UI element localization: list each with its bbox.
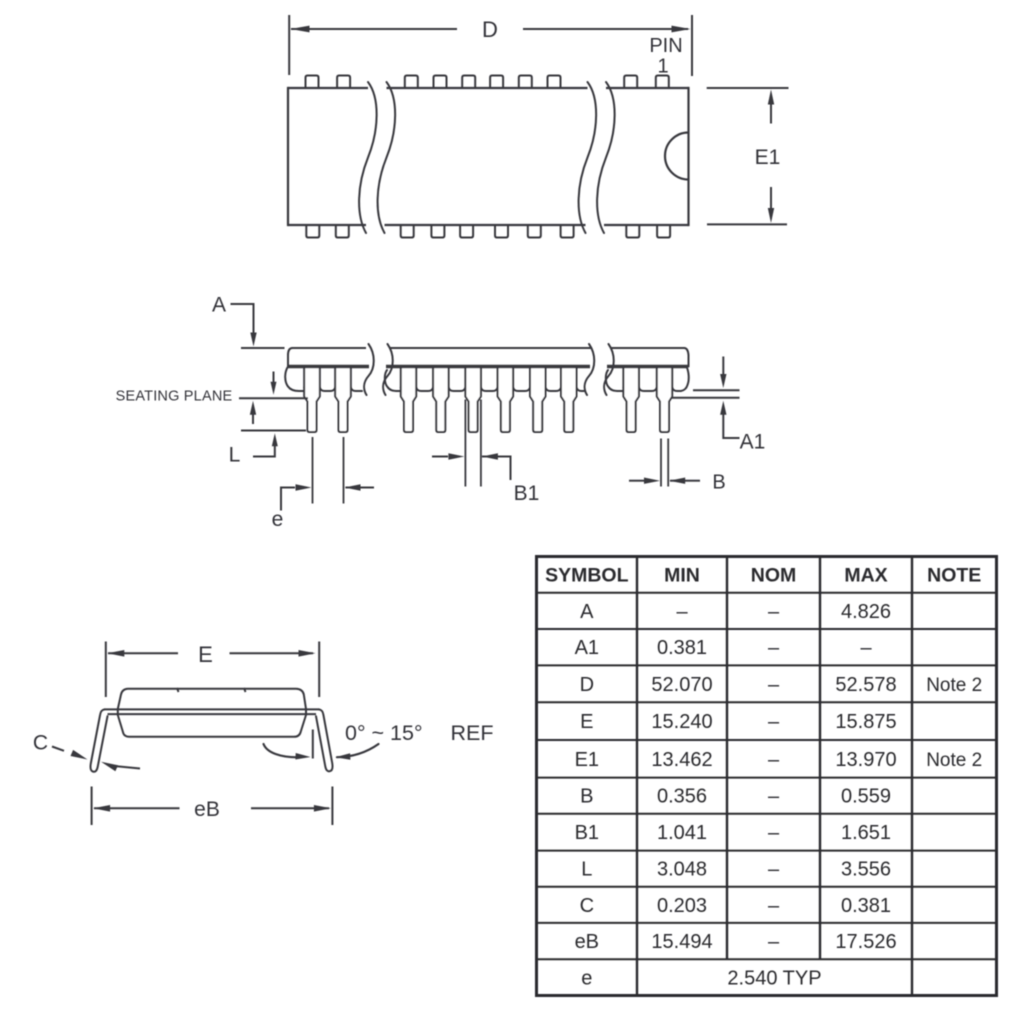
svg-text:–: – (768, 822, 780, 844)
svg-text:eB: eB (194, 798, 220, 821)
svg-text:Note 2: Note 2 (926, 675, 982, 696)
svg-text:D: D (580, 674, 594, 696)
svg-text:0.559: 0.559 (841, 786, 891, 808)
svg-text:B: B (712, 472, 725, 494)
svg-text:2.540 TYP: 2.540 TYP (727, 967, 821, 989)
svg-text:A1: A1 (575, 637, 599, 659)
svg-text:52.578: 52.578 (835, 674, 896, 696)
svg-text:A1: A1 (740, 431, 766, 454)
svg-text:e: e (272, 508, 284, 531)
dimension A: lower arrow (250, 401, 256, 424)
svg-text:3.556: 3.556 (841, 859, 891, 881)
svg-text:0.203: 0.203 (657, 895, 707, 917)
angle reference line (312, 730, 314, 759)
side view: section 2 pins (401, 367, 577, 433)
dimension B1: arrows and label (432, 453, 539, 505)
dimension C: label and arrows (33, 732, 140, 772)
svg-text:–: – (860, 637, 872, 659)
svg-text:1.651: 1.651 (841, 822, 891, 844)
svg-text:15.875: 15.875 (835, 711, 896, 733)
svg-text:B1: B1 (514, 482, 540, 505)
svg-text:–: – (768, 749, 780, 771)
label PIN 1 (649, 35, 682, 78)
svg-text:A: A (212, 294, 226, 317)
side view: section 3 mold line (607, 365, 688, 369)
top view: pin 1 notch (half circle) (665, 133, 689, 180)
top view: bottom row pins (306, 225, 670, 238)
svg-text:E1: E1 (755, 146, 781, 169)
svg-text:B1: B1 (575, 822, 599, 844)
svg-text:MAX: MAX (844, 565, 887, 587)
svg-text:C: C (580, 895, 594, 917)
dimension E1: extension lines (707, 88, 789, 224)
svg-text:–: – (768, 895, 780, 917)
dimension E1: arrows (768, 90, 774, 224)
svg-text:13.970: 13.970 (835, 749, 896, 771)
dimension table (537, 557, 997, 996)
top view: break lines (left pair) (359, 82, 395, 233)
svg-text:MIN: MIN (664, 565, 700, 587)
svg-text:A: A (580, 601, 594, 623)
end view: lead shoulder lines (double) (105, 709, 320, 714)
svg-text:B: B (580, 786, 593, 808)
svg-text:17.526: 17.526 (835, 931, 896, 953)
top view: break lines (right pair) (579, 82, 615, 233)
svg-text:0.381: 0.381 (657, 637, 707, 659)
svg-text:4.826: 4.826 (841, 601, 891, 623)
side view: body section 2 (383, 344, 594, 395)
seating plane line (239, 397, 308, 399)
svg-text:C: C (33, 732, 48, 755)
svg-text:13.462: 13.462 (651, 749, 712, 771)
svg-text:3.048: 3.048 (657, 859, 707, 881)
side view: section 1 mold line (287, 365, 369, 369)
side view: section 2 mold line (386, 365, 590, 369)
end view: right lead (316, 709, 333, 771)
svg-text:eB: eB (575, 931, 599, 953)
svg-text:L: L (581, 859, 592, 881)
svg-text:15.240: 15.240 (651, 711, 712, 733)
svg-text:1.041: 1.041 (657, 822, 707, 844)
side view: section 3 pins (623, 367, 672, 433)
dimension A: label and leader (212, 294, 257, 347)
dimension eB: extension lines (92, 787, 333, 826)
svg-text:SEATING PLANE: SEATING PLANE (116, 388, 233, 404)
dimension eB: arrows and label (93, 798, 331, 821)
svg-text:15.494: 15.494 (651, 931, 712, 953)
svg-text:0° ~ 15°: 0° ~ 15° (345, 721, 423, 745)
dimension D: arrows and line (291, 26, 691, 33)
dimension L: reference line at pin tips (241, 430, 306, 432)
svg-text:NOTE: NOTE (927, 565, 981, 587)
dimension B1: extension lines (465, 400, 481, 487)
svg-text:E1: E1 (575, 749, 599, 771)
dimension B: extension lines (661, 439, 668, 487)
dimension D: extension lines (289, 15, 692, 76)
side view: body section 1 (285, 344, 374, 395)
top view: DIP package body (288, 87, 689, 226)
dimension A: reference line at body top (241, 347, 285, 349)
svg-text:1: 1 (657, 56, 668, 78)
svg-text:52.070: 52.070 (651, 674, 712, 696)
svg-text:–: – (676, 601, 688, 623)
svg-text:–: – (768, 637, 780, 659)
dimension L: label and leader (229, 433, 278, 466)
svg-text:0.356: 0.356 (657, 786, 707, 808)
top view: top row pins (306, 76, 669, 89)
svg-text:Note 2: Note 2 (926, 750, 982, 771)
svg-text:PIN: PIN (649, 35, 682, 57)
svg-text:–: – (768, 601, 780, 623)
dimension A1: arrows and label (720, 357, 765, 454)
svg-text:E: E (198, 642, 213, 667)
dimension e: arrows and label (272, 484, 374, 531)
end view: left lead (90, 709, 107, 771)
svg-text:0.381: 0.381 (841, 895, 891, 917)
svg-text:E: E (580, 711, 593, 733)
end view: package body outline (118, 689, 306, 737)
dimension L: upper arrow (271, 372, 277, 395)
end view: mold gate marks (177, 688, 246, 692)
svg-text:REF: REF (451, 721, 494, 745)
dimension A1: reference lines (672, 390, 740, 398)
dimension B: arrows and label (629, 472, 726, 494)
side view: section 1 pins (304, 367, 351, 433)
svg-text:–: – (768, 931, 780, 953)
svg-text:L: L (229, 444, 241, 467)
svg-text:–: – (768, 786, 780, 808)
svg-text:SYMBOL: SYMBOL (545, 565, 629, 587)
angle arc arrows (264, 744, 379, 760)
dimension e: extension lines (313, 437, 344, 504)
svg-text:–: – (768, 674, 780, 696)
svg-text:D: D (482, 17, 498, 42)
dimension E: extension lines (106, 642, 319, 698)
side view: body section 3 (604, 344, 689, 395)
svg-text:–: – (768, 711, 780, 733)
dimension E: arrows and label (107, 642, 315, 667)
svg-text:e: e (581, 967, 592, 989)
label 0 ~ 15 REF (345, 721, 494, 745)
svg-text:NOM: NOM (751, 565, 797, 587)
svg-text:–: – (768, 859, 780, 881)
